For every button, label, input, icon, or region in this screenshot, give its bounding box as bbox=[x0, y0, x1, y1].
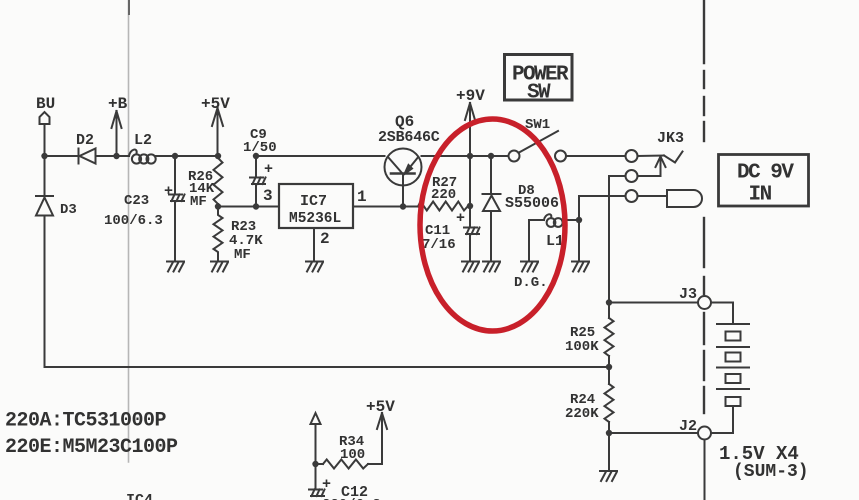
node junction L1 right bbox=[576, 217, 582, 223]
node junction C23 bbox=[172, 153, 178, 159]
svg-text:BU: BU bbox=[36, 95, 55, 113]
svg-text:220K: 220K bbox=[565, 406, 599, 422]
node junction R26/R23 bbox=[215, 203, 221, 209]
svg-text:7/16: 7/16 bbox=[422, 237, 456, 253]
wire jack bottom row bbox=[579, 195, 626, 197]
svg-text:IN: IN bbox=[749, 183, 772, 206]
svg-text:S55006: S55006 bbox=[505, 195, 559, 212]
wire jack middle row bbox=[638, 175, 661, 177]
connector BU pentagon bbox=[40, 112, 50, 124]
scan fold line bbox=[128, 0, 130, 462]
jack switch arrow bbox=[660, 157, 662, 176]
node to other net (hollow arrow) bbox=[311, 413, 321, 424]
ground R24 bbox=[600, 471, 617, 481]
ground R23 bbox=[211, 262, 228, 272]
svg-text:1/50: 1/50 bbox=[243, 140, 277, 156]
box POWER SW bbox=[505, 55, 573, 101]
svg-text:+: + bbox=[456, 210, 465, 227]
svg-text:+: + bbox=[264, 161, 273, 178]
svg-text:+: + bbox=[164, 183, 173, 200]
ground IC7 pin2 bbox=[306, 262, 323, 272]
ground C11 bbox=[462, 262, 479, 272]
wire SW1 to JK3 bbox=[566, 155, 626, 157]
box DC 9V IN bbox=[719, 155, 809, 207]
svg-text:+B: +B bbox=[108, 95, 128, 113]
svg-text:220E:M5M23C100P: 220E:M5M23C100P bbox=[5, 436, 178, 459]
ground C23 bbox=[167, 262, 184, 272]
svg-text:100K: 100K bbox=[565, 339, 599, 355]
svg-text:D.G.: D.G. bbox=[514, 275, 548, 291]
wire rail C9 to Q6 bbox=[256, 155, 385, 157]
svg-text:100: 100 bbox=[340, 447, 365, 463]
svg-text:220A:TC531000P: 220A:TC531000P bbox=[5, 410, 167, 433]
ground jack sleeve bbox=[572, 262, 589, 272]
wire rail Q6 to SW1 bbox=[422, 155, 509, 157]
battery B1 4 cells bbox=[717, 323, 749, 325]
svg-text:3: 3 bbox=[263, 187, 273, 205]
wire left vertical to D3 bbox=[41, 153, 47, 159]
svg-text:2SB646C: 2SB646C bbox=[378, 129, 440, 146]
wire rail L2 to C23 bbox=[156, 155, 218, 157]
ground D8 bbox=[483, 262, 500, 272]
wire pin3 net bbox=[218, 206, 279, 208]
wire BU stem bbox=[44, 124, 46, 156]
svg-text:2: 2 bbox=[320, 230, 330, 248]
svg-text:IC4: IC4 bbox=[126, 492, 153, 500]
ground L1 left bbox=[521, 262, 538, 272]
jack plug barrel bbox=[667, 190, 702, 207]
wire rail D2 to L2 bbox=[96, 155, 130, 157]
svg-text:D3: D3 bbox=[60, 202, 77, 218]
svg-text:1: 1 bbox=[357, 188, 367, 206]
svg-text:+5V: +5V bbox=[201, 95, 230, 113]
svg-text:D2: D2 bbox=[76, 132, 94, 149]
svg-text:L2: L2 bbox=[134, 132, 152, 149]
op-amp U/IC7 box bbox=[279, 184, 353, 228]
annotation red ellipse bbox=[420, 119, 565, 331]
jack bent contact bbox=[664, 152, 683, 163]
wire main rail y156 bbox=[45, 155, 79, 157]
dashed PCB boundary bbox=[703, 0, 705, 413]
svg-text:220: 220 bbox=[431, 187, 456, 203]
svg-text:MF: MF bbox=[234, 247, 251, 263]
svg-text:100/6.3: 100/6.3 bbox=[104, 213, 163, 229]
svg-text:C23: C23 bbox=[124, 193, 149, 209]
svg-text:DC 9V: DC 9V bbox=[737, 162, 794, 185]
svg-text:(SUM-3): (SUM-3) bbox=[733, 462, 809, 482]
svg-text:MF: MF bbox=[190, 194, 207, 210]
wire jack top row right bbox=[638, 155, 665, 158]
wire stub top edge bbox=[128, 0, 130, 14]
node junction R25/R24 bbox=[606, 364, 612, 370]
svg-text:J3: J3 bbox=[679, 286, 697, 303]
svg-text:IC7: IC7 bbox=[300, 193, 327, 210]
svg-text:SW: SW bbox=[527, 82, 551, 105]
svg-text:M5236L: M5236L bbox=[289, 211, 341, 227]
node junction R26 top bbox=[215, 153, 221, 159]
svg-text:JK3: JK3 bbox=[657, 130, 684, 147]
wire battery sense bbox=[45, 366, 610, 368]
svg-text:+5V: +5V bbox=[366, 398, 395, 416]
